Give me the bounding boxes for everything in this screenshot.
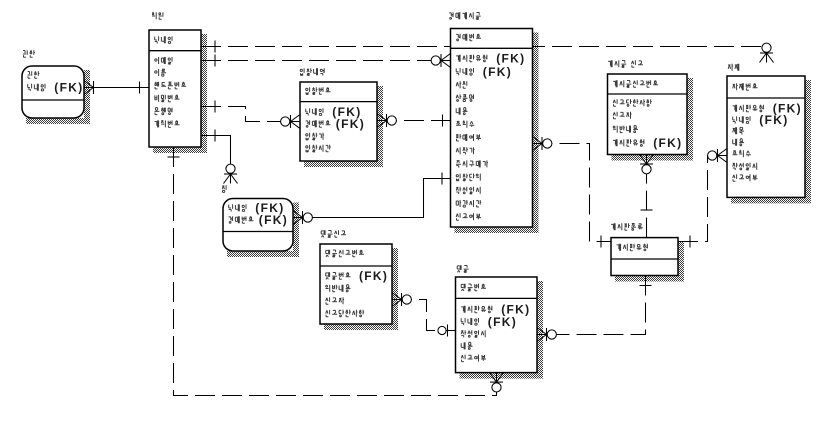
wire [678,156,727,242]
attribute rows of 댓글신고 [326,250,365,317]
entity 댓글신고 shadow [324,248,398,330]
wire [533,144,612,242]
entity 자제 [727,64,805,198]
svg-text:(FK): (FK) [483,65,512,79]
entity 자제 shadow [731,80,811,203]
entity 입찰내역 [300,68,377,161]
relationship 회원-자제 (non-identifying) [201,41,774,63]
relationship 회원-입찰내역 (non-identifying) [201,101,300,129]
title label 게시글 신고 [608,60,643,67]
relationship 회원-권한 (identifying) [84,81,149,95]
entity 회원 [149,12,201,147]
relationship 경매게시글-찜 (identifying) [293,173,451,225]
crow-foot (many) symbol [84,88,94,95]
title label 찜 [222,185,226,192]
crow-foot (many) symbol [441,54,451,61]
entity 게시판종류 [611,223,678,275]
svg-text:(FK): (FK) [496,52,525,66]
wire [537,276,646,335]
wire [646,155,648,238]
entity 입찰내역 shadow [304,86,383,167]
svg-text:(FK): (FK) [488,315,517,329]
title label 댓글신고 [321,230,346,237]
cardinality one tick [168,156,180,158]
wire [377,120,451,122]
title label 댓글 [457,265,468,272]
entity 찜 [222,185,293,251]
crow-foot (many) symbol [537,335,547,342]
title label 자제 [728,64,739,71]
svg-text:(FK): (FK) [653,136,682,150]
crow-foot (many) symbol [293,218,303,225]
cardinality one tick [641,209,653,211]
entity 경매게시글 shadow [455,33,539,234]
attribute rows of 게시글 신고 [613,80,658,146]
cardinality one tick [214,55,216,67]
cardinality one tick [640,285,652,287]
cardinality one tick [139,82,141,94]
relationship 회원-댓글 (non-identifying) [168,147,504,396]
wire [174,147,497,396]
wire [201,60,451,62]
svg-text:(FK): (FK) [259,213,288,227]
crow-foot (many) symbol [377,121,387,128]
attribute rows of 찜 [229,204,254,223]
attribute rows of 회원 [155,36,187,127]
relationship 댓글-댓글신고 (non-identifying) [392,293,456,337]
crow-foot (many) symbol [392,300,402,307]
relationship 게시판종류-게시글신고 (non-identifying) [640,155,654,238]
title label 회원 [152,12,163,19]
entity 회원 shadow [153,34,207,153]
crow-foot (many) symbol [640,155,647,165]
wire [84,87,149,89]
title label 경매게시글 [449,12,481,19]
crow-foot (many) symbol [490,373,497,383]
cardinality one tick [441,173,443,185]
entity 댓글신고 [320,230,392,324]
svg-text:(FK): (FK) [359,269,388,283]
cardinality one tick [214,41,216,53]
attribute rows of 입찰내역 [306,87,331,152]
svg-text:(FK): (FK) [54,81,83,95]
attribute rows of 경매게시글 [456,34,488,220]
cardinality one tick [689,236,691,248]
zero-or-one symbol [447,325,449,337]
relationship 회원-경매게시글 (non-identifying) [201,54,451,68]
wire [201,136,231,165]
entity 게시글신고 [608,60,688,154]
cardinality one tick [600,236,602,248]
crow-foot (many) symbol [533,144,543,151]
entity 게시글신고 shadow [612,78,694,161]
wire [201,46,767,48]
crow-foot (many) symbol [291,115,301,122]
cardinality one tick [214,101,216,113]
title label 입찰내역 [300,68,324,75]
cardinality one tick [442,115,444,127]
entity 권한 [22,50,84,118]
entity 찜 shadow [227,203,299,258]
relationship 게시판종류-자제 (non-identifying) [678,149,727,248]
wire [392,300,456,331]
wire [201,107,300,122]
wire [293,179,451,218]
crow-foot (many) symbol [231,174,238,184]
attribute rows of 권한 [28,71,46,91]
relationship 회원-찜 (identifying) [201,130,238,184]
entity 게시판종류 shadow [615,242,684,282]
entity 댓글 [456,265,538,372]
relationship 게시판종류-경매게시글 (non-identifying) [533,137,612,248]
attribute rows of 자제 [733,83,764,181]
svg-text:(FK): (FK) [336,117,365,131]
title label 게시판종류 [611,223,643,230]
title label 권한 [23,50,35,57]
relationship 경매게시글-입찰내역 (non-identifying) [377,114,451,128]
svg-text:(FK): (FK) [759,113,788,127]
attribute rows of 댓글 [461,284,492,362]
entity 권한 shadow [26,70,90,124]
relationship 게시판종류-댓글 (non-identifying) [537,276,652,342]
crow-foot (many) symbol [767,53,774,63]
entity 댓글 shadow [460,281,544,379]
attribute rows of 게시판종류 [617,244,648,251]
cardinality one tick [214,130,216,142]
crow-foot (many) symbol [718,149,728,156]
entity 경매게시글 [449,12,532,227]
